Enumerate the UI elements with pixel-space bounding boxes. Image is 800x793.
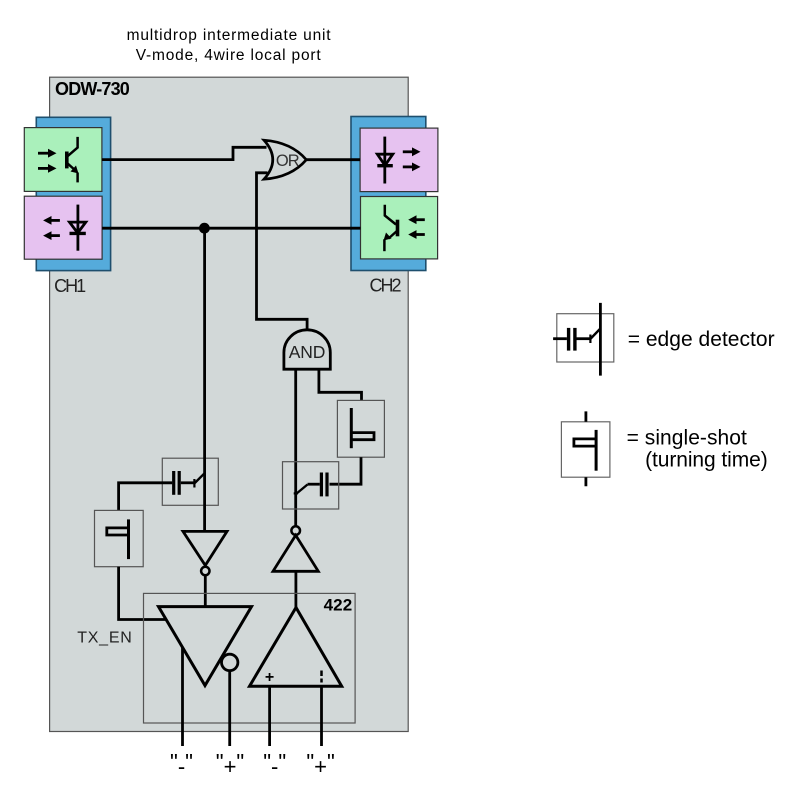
CH2 phototransistor emitter arrowhead bbox=[384, 233, 392, 241]
CH2 receiver box (green, phototransistor) bbox=[361, 197, 438, 259]
inverter INV1 (left, pointing down) bbox=[183, 531, 227, 606]
svg-text:+: + bbox=[265, 669, 274, 686]
CH2 transmitter box (purple, LED) bbox=[360, 128, 438, 192]
CH1 LED symbol bbox=[70, 205, 86, 251]
single-shot SS1 (right) bbox=[337, 400, 384, 457]
ODW-730 enclosure box bbox=[50, 77, 409, 731]
wire: CH1 receiver to OR top input (with step) bbox=[102, 147, 267, 159]
CH1 phototransistor emitter arrowhead bbox=[71, 166, 79, 174]
svg-text:V-mode, 4wire local port: V-mode, 4wire local port bbox=[136, 47, 322, 64]
svg-text:CH1: CH1 bbox=[54, 276, 86, 296]
svg-text:TX_EN: TX_EN bbox=[77, 629, 132, 646]
AND gate bbox=[284, 330, 330, 369]
node junction on lower line bbox=[199, 223, 210, 234]
legend edge detector symbol bbox=[553, 303, 614, 376]
svg-text:"-": "-" bbox=[170, 750, 193, 780]
422 transceiver box bbox=[144, 593, 356, 723]
svg-text:AND: AND bbox=[289, 342, 326, 362]
CH1 phototransistor symbol bbox=[67, 137, 78, 183]
CH2 outgoing light arrows bbox=[403, 147, 421, 171]
wire: AND left output down to inverter bubble bbox=[294, 369, 297, 526]
wire: OR output to CH2 transmitter bbox=[306, 158, 361, 161]
CH2 LED symbol bbox=[377, 137, 393, 184]
title text bbox=[127, 27, 332, 64]
svg-text:CH2: CH2 bbox=[370, 275, 402, 295]
CH2 blue carrier box bbox=[351, 117, 426, 271]
wire: driver bubble output to "+" terminal bbox=[228, 671, 231, 746]
wire: driver output A to "-" terminal bbox=[181, 647, 184, 746]
CH1 transmitter box (purple, LED) bbox=[24, 196, 102, 259]
wire: receiver input "-" bbox=[268, 686, 271, 746]
wire: AND right output to single-shot bbox=[319, 369, 362, 400]
svg-text:(turning time): (turning time) bbox=[645, 448, 768, 471]
inverter INV2 (right, pointing up with bubble) bbox=[273, 526, 318, 607]
receiver U2 (up triangle) bbox=[250, 608, 342, 687]
terminal labels bbox=[170, 750, 335, 780]
CH1 receiver box (green, phototransistor) bbox=[24, 128, 102, 192]
wire: CH1 transmitter line to CH2 receiver bbox=[102, 227, 360, 230]
CH1 blue carrier box bbox=[36, 117, 110, 270]
svg-text:"+": "+" bbox=[306, 750, 334, 780]
svg-text:422: 422 bbox=[324, 596, 353, 615]
single-shot SS2 (left) bbox=[95, 510, 144, 566]
svg-text:ODW-730: ODW-730 bbox=[55, 79, 130, 99]
wire: ED1 capacitor to left bbox=[119, 483, 173, 511]
wire: receiver input "+" bbox=[320, 686, 323, 746]
edge detector ED2 (right) bbox=[283, 462, 339, 509]
svg-text:"-": "-" bbox=[263, 750, 286, 780]
svg-text:= edge detector: = edge detector bbox=[628, 328, 775, 351]
CH2 phototransistor symbol (mirrored) bbox=[384, 205, 397, 251]
edge detector ED1 (left) bbox=[162, 458, 218, 505]
legend single-shot symbol bbox=[561, 411, 610, 486]
svg-text:multidrop intermediate unit: multidrop intermediate unit bbox=[127, 27, 332, 44]
wire: AND output up to OR lower input bbox=[257, 173, 308, 331]
svg-text:OR: OR bbox=[276, 152, 300, 170]
OR gate bbox=[264, 140, 306, 179]
wire: SS2 output to driver enable (TX_EN) bbox=[119, 567, 167, 620]
svg-text:"+": "+" bbox=[216, 750, 244, 780]
wire: single-shot SS1 output to edge detector ED2 bbox=[330, 457, 362, 484]
CH1 outgoing light arrows bbox=[43, 216, 60, 240]
driver U1 (down triangle) bbox=[159, 607, 252, 686]
wire: lower line junction down through ED1 to inverter bbox=[203, 228, 206, 531]
svg-text:= single-shot: = single-shot bbox=[627, 426, 747, 449]
CH1 incoming light arrows bbox=[38, 149, 57, 173]
CH2 incoming light arrows bbox=[408, 215, 425, 239]
